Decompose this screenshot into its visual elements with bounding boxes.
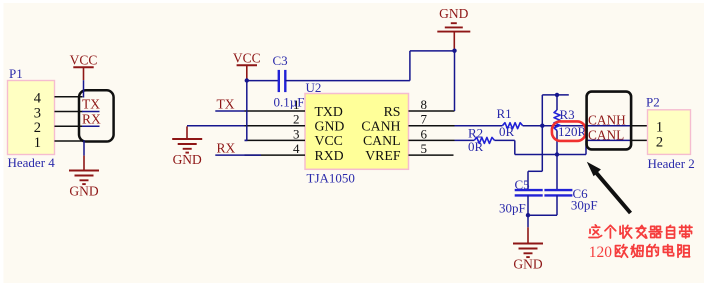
svg-text:TJA1050: TJA1050 [307,171,355,186]
svg-text:CANH: CANH [361,119,400,134]
svg-text:2: 2 [293,112,300,127]
svg-text:30pF: 30pF [571,198,598,213]
svg-text:CANH: CANH [588,113,626,128]
svg-text:2: 2 [656,134,663,150]
svg-text:30pF: 30pF [499,200,526,215]
svg-text:4: 4 [34,91,42,107]
svg-text:GND: GND [69,183,98,198]
svg-text:120R: 120R [558,124,587,139]
svg-text:RXD: RXD [315,148,344,163]
svg-text:3: 3 [293,126,300,141]
svg-text:TX: TX [82,97,100,112]
svg-text:CANL: CANL [363,133,401,148]
svg-text:1: 1 [34,135,41,151]
svg-text:R1: R1 [497,106,512,121]
svg-text:GND: GND [173,152,202,167]
svg-text:CANL: CANL [588,127,624,142]
svg-text:Header 2: Header 2 [648,156,695,171]
svg-text:GND: GND [315,119,345,134]
svg-text:TX: TX [217,96,235,111]
svg-text:GND: GND [513,256,542,271]
svg-text:P1: P1 [9,66,23,81]
svg-text:6: 6 [421,126,428,141]
svg-text:VCC: VCC [233,51,261,66]
svg-text:8: 8 [421,97,428,112]
svg-text:5: 5 [421,141,428,156]
svg-text:Header 4: Header 4 [8,155,56,170]
svg-text:1: 1 [656,120,663,136]
svg-text:2: 2 [34,120,41,136]
svg-text:RX: RX [82,111,101,126]
svg-text:C3: C3 [273,53,288,68]
svg-text:4: 4 [293,141,300,156]
svg-text:RX: RX [217,140,236,155]
svg-text:GND: GND [439,6,468,21]
svg-text:0.1µF: 0.1µF [274,95,305,110]
svg-text:R3: R3 [560,107,575,122]
svg-text:VCC: VCC [70,53,98,68]
svg-text:7: 7 [421,112,428,127]
svg-text:VREF: VREF [365,148,401,163]
svg-text:P2: P2 [646,95,660,110]
svg-text:VCC: VCC [315,133,343,148]
svg-text:120: 120 [589,244,613,261]
svg-text:3: 3 [34,105,41,121]
svg-text:RS: RS [384,104,401,119]
svg-text:TXD: TXD [315,104,343,119]
